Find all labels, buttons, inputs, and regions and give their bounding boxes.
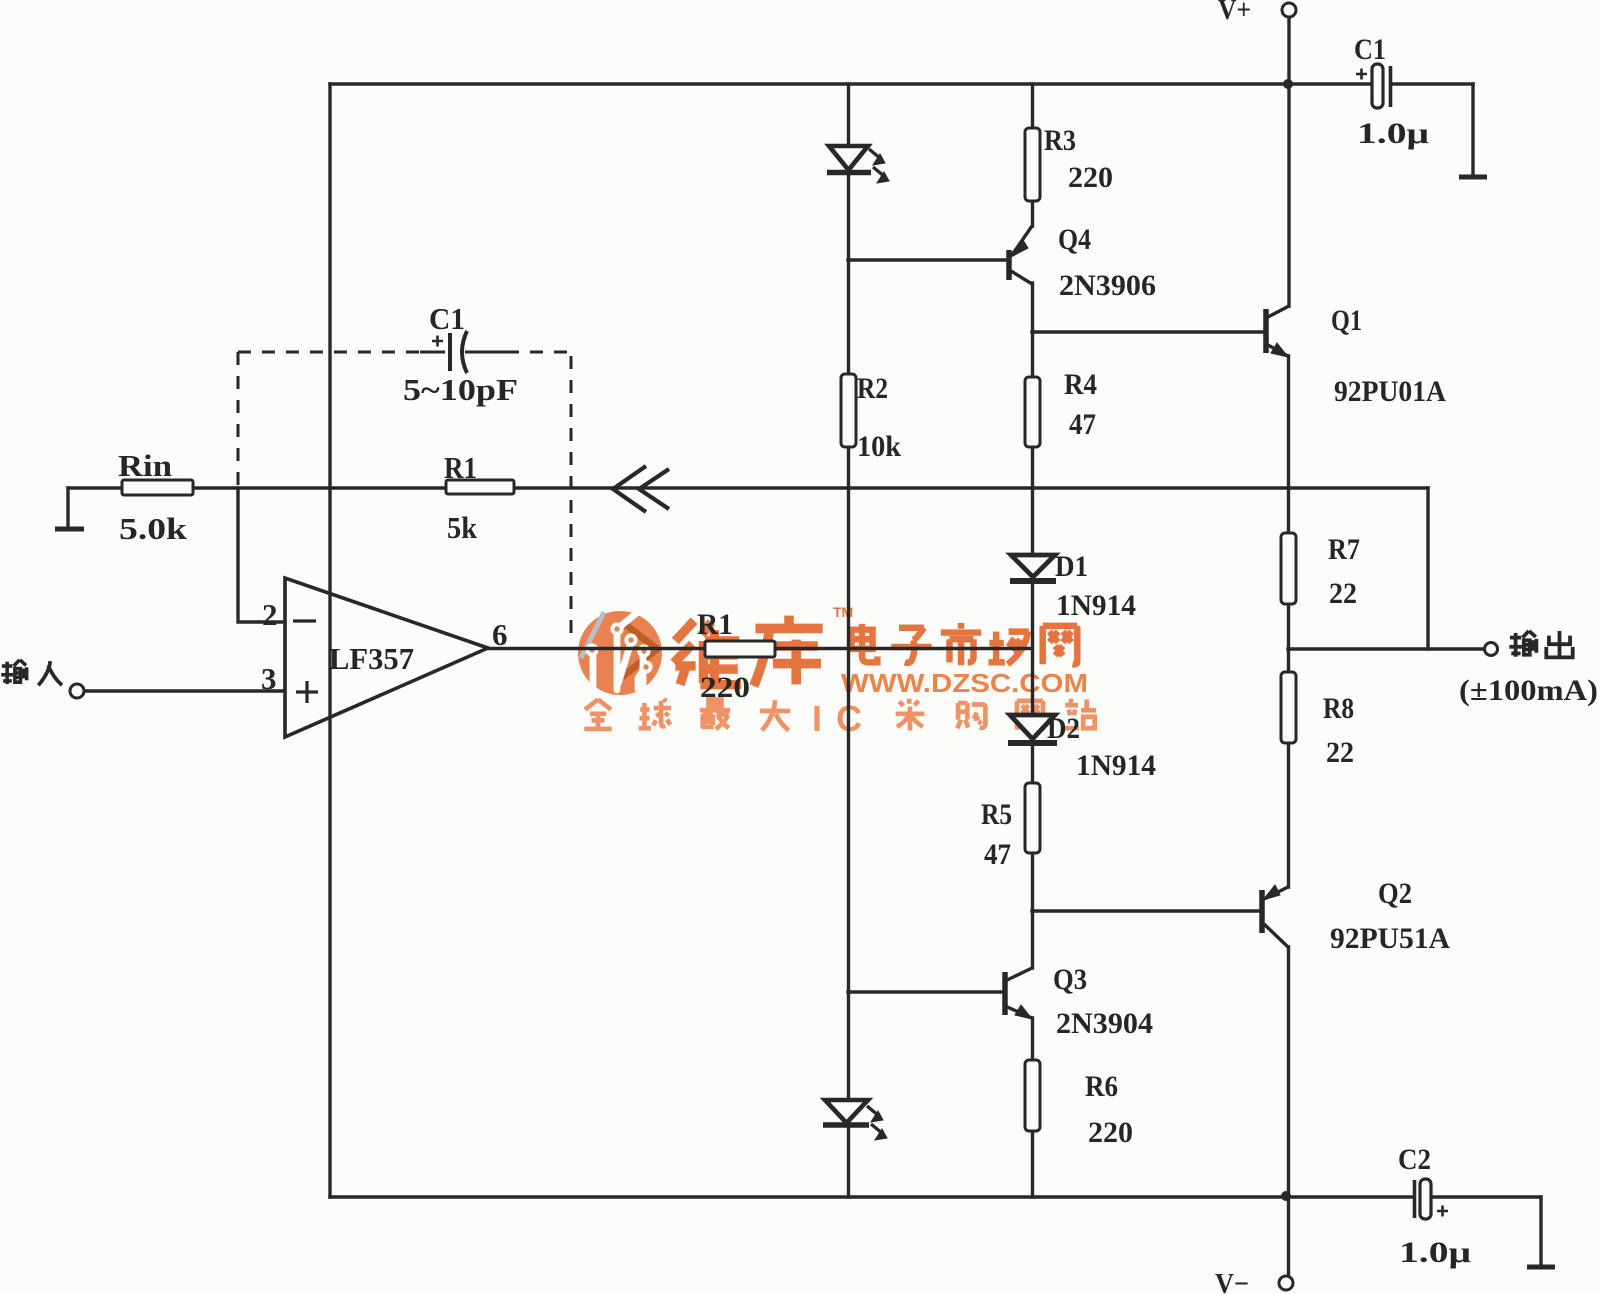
svg-text:R8: R8	[1323, 692, 1354, 725]
svg-text:R5: R5	[981, 798, 1012, 831]
svg-text:R3: R3	[1044, 124, 1076, 157]
svg-text:C1: C1	[1354, 33, 1386, 66]
svg-text:I: I	[812, 698, 822, 739]
svg-text:22: 22	[1329, 577, 1357, 610]
svg-text:C1: C1	[429, 301, 465, 336]
svg-text:6: 6	[492, 617, 508, 652]
svg-text:1N914: 1N914	[1056, 589, 1136, 622]
svg-text:R4: R4	[1064, 368, 1097, 401]
svg-text:10k: 10k	[857, 430, 901, 463]
svg-text:Q3: Q3	[1053, 963, 1087, 996]
svg-text:D1: D1	[1055, 550, 1088, 583]
svg-text:Rin: Rin	[118, 448, 172, 483]
svg-text:3: 3	[261, 661, 277, 696]
svg-text:22: 22	[1326, 736, 1354, 769]
svg-text:(±100mA): (±100mA)	[1459, 674, 1598, 707]
svg-text:1N914: 1N914	[1076, 749, 1156, 782]
svg-text:V−: V−	[1215, 1268, 1249, 1294]
svg-text:1.0μ: 1.0μ	[1357, 117, 1429, 150]
svg-text:92PU51A: 92PU51A	[1330, 922, 1450, 955]
svg-text:Q1: Q1	[1331, 304, 1362, 337]
svg-text:R1: R1	[697, 608, 733, 641]
svg-text:R2: R2	[857, 372, 888, 405]
svg-text:5.0k: 5.0k	[119, 511, 188, 546]
svg-text:5k: 5k	[447, 510, 478, 545]
svg-text:Q4: Q4	[1058, 223, 1091, 256]
svg-text:Q2: Q2	[1378, 877, 1412, 910]
svg-text:2N3906: 2N3906	[1059, 269, 1156, 302]
svg-text:LF357: LF357	[329, 641, 414, 676]
svg-text:220: 220	[1068, 161, 1113, 194]
svg-text:220: 220	[1088, 1116, 1133, 1149]
svg-text:R6: R6	[1085, 1070, 1118, 1103]
svg-text:R1: R1	[444, 450, 477, 485]
svg-text:D2: D2	[1047, 712, 1080, 745]
svg-text:92PU01A: 92PU01A	[1334, 375, 1446, 408]
svg-text:C2: C2	[1398, 1143, 1431, 1176]
svg-text:V+: V+	[1218, 0, 1251, 26]
svg-text:47: 47	[1069, 408, 1096, 441]
svg-text:2: 2	[262, 597, 278, 632]
svg-text:WWW.DZSC.COM: WWW.DZSC.COM	[841, 668, 1088, 698]
svg-text:R7: R7	[1328, 533, 1360, 566]
svg-text:2N3904: 2N3904	[1056, 1007, 1153, 1040]
svg-text:47: 47	[984, 838, 1011, 871]
svg-text:5~10pF: 5~10pF	[403, 372, 518, 407]
svg-text:1.0μ: 1.0μ	[1399, 1236, 1471, 1269]
svg-text:220: 220	[700, 671, 750, 704]
